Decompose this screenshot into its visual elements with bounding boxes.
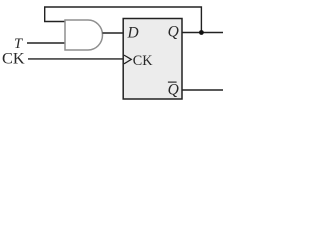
wire: AND gate output to D input [103,32,124,34]
D flip-flop U2 [123,19,182,100]
junction node on Q output [199,30,204,35]
svg-text:D: D [127,24,139,41]
wire: T input to AND gate [27,42,65,44]
wire: CK input to flip-flop [28,58,124,60]
overbar of Q-bar [168,81,177,83]
wire: Q output to right edge [182,32,223,34]
wire: Q-bar output to right edge [182,89,223,91]
svg-text:Q: Q [168,82,179,99]
wire: feedback from Q up over to AND gate top input [45,7,202,33]
svg-text:CK: CK [133,53,153,69]
AND gate U1 [65,20,103,50]
clock edge triangle on CK pin [124,55,131,64]
svg-text:Q: Q [168,23,179,40]
svg-text:CK: CK [2,49,25,68]
